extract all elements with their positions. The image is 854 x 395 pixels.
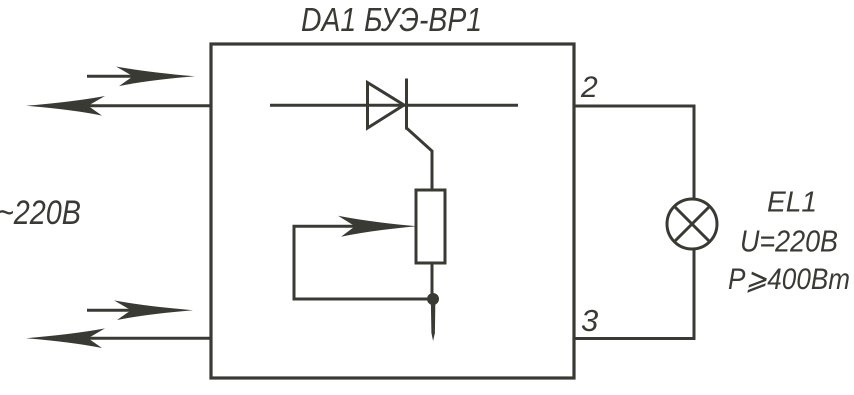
svg-text:P⩾400Вm: P⩾400Вm [728, 263, 850, 296]
arrowhead control arrow into resistor [338, 216, 417, 237]
svg-text:3: 3 [581, 303, 598, 338]
lamp EL1 cross [675, 207, 710, 242]
svg-text:DA1 БУЭ-ВР1: DA1 БУЭ-ВР1 [301, 1, 482, 38]
wire thyristor anode-cathode horizontal [270, 104, 518, 107]
wire stub below junction [431, 299, 436, 341]
resistor R (control resistor) [416, 190, 445, 263]
wire lamp to pin 3 [574, 249, 694, 339]
wire mains phase in (bottom-left, arrow right) [87, 309, 138, 312]
thyristor cathode bar [405, 79, 408, 130]
svg-text:EL1: EL1 [767, 187, 817, 219]
wire mains phase in (top-left, arrow right) [87, 75, 140, 78]
wire pin 2 to lamp [574, 106, 694, 200]
arrowhead mains out bottom [26, 328, 105, 348]
arrowhead mains in bottom [114, 300, 193, 320]
junction dot [427, 293, 439, 305]
lamp EL1 (circle) [667, 199, 717, 249]
thyristor VS (triangle) [368, 83, 405, 129]
wire mains phase out (bottom-left, arrow left) [80, 337, 211, 340]
wire feedback loop [294, 226, 433, 299]
wire resistor bottom lead [431, 263, 434, 299]
arrowhead mains in top [116, 67, 195, 87]
arrowhead mains out top [26, 96, 105, 116]
box DA1 (control unit outline) [211, 44, 574, 378]
svg-text:2: 2 [580, 71, 598, 104]
svg-text:U=220В: U=220В [740, 224, 838, 259]
wire gate lead of thyristor [407, 128, 433, 190]
wire mains phase out (top-left, arrow left) [80, 104, 211, 107]
svg-text:~220В: ~220В [0, 194, 81, 232]
